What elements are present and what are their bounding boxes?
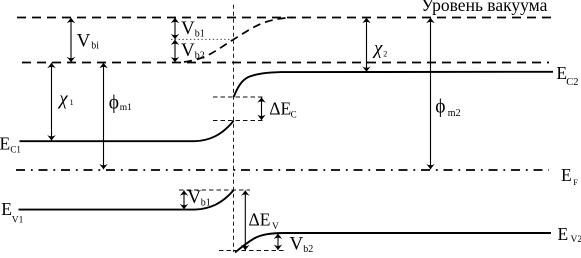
svg-text:C1: C1	[10, 145, 21, 155]
valence band E_V2	[235, 233, 551, 253]
junction vertical dashed line	[233, 5, 235, 252]
svg-text:2: 2	[383, 50, 387, 59]
svg-text:V: V	[290, 234, 304, 255]
svg-text:bi: bi	[91, 40, 99, 51]
svg-text:V: V	[181, 18, 195, 39]
svg-text:E: E	[0, 133, 10, 153]
arrow V_b1 bottom	[183, 190, 185, 209]
svg-text:χ: χ	[57, 88, 68, 109]
arrow V_b1	[174, 18, 176, 39]
arrow V_b2	[174, 40, 176, 63]
arrow V_bi	[70, 18, 72, 62]
dotted reference line at vacuum crossing	[171, 38, 234, 40]
svg-text:V: V	[187, 187, 201, 208]
arrow Delta E_C	[261, 97, 263, 120]
dashed ref E_C1 max at junction	[213, 120, 264, 122]
svg-text:V: V	[77, 31, 91, 52]
dashed ref E_C2 at junction	[213, 96, 264, 98]
svg-text:b2: b2	[195, 51, 205, 62]
Fermi level E_F dash-dot line	[16, 169, 549, 171]
svg-text:ϕ: ϕ	[435, 96, 445, 117]
svg-text:F: F	[573, 177, 578, 187]
vacuum level left dashed line	[22, 62, 549, 64]
svg-text:m2: m2	[448, 108, 461, 119]
svg-text:V2: V2	[571, 235, 581, 245]
arrow Delta E_V	[244, 190, 246, 250]
svg-text:Уровень вакуума: Уровень вакуума	[421, 0, 547, 15]
dashed ref E_V2 at junction bottom	[219, 250, 285, 252]
svg-text:b1: b1	[201, 198, 211, 209]
arrow chi_2	[366, 18, 368, 72]
vacuum level top dashed line	[17, 17, 552, 19]
svg-text:b2: b2	[303, 244, 313, 255]
svg-text:ϕ: ϕ	[109, 93, 119, 114]
svg-text:χ: χ	[372, 38, 383, 59]
svg-text:E: E	[1, 199, 12, 219]
arrow phi_m1	[103, 63, 105, 170]
svg-text:V1: V1	[12, 216, 24, 226]
valence band E_V1	[19, 190, 234, 209]
svg-text:E: E	[558, 224, 569, 244]
conduction band E_C1	[20, 121, 234, 141]
svg-text:V: V	[272, 222, 279, 232]
svg-text:ΔE: ΔE	[269, 98, 291, 118]
vacuum bending dashed curve	[184, 18, 293, 63]
svg-text:C: C	[291, 110, 297, 120]
conduction band E_C2	[234, 72, 553, 97]
arrow chi_1	[51, 63, 53, 141]
svg-text:ΔE: ΔE	[249, 210, 271, 230]
svg-text:E: E	[561, 165, 572, 185]
svg-text:C2: C2	[566, 77, 578, 88]
dashed ref E_V1 max	[179, 189, 250, 191]
svg-text:m1: m1	[120, 103, 132, 113]
svg-text:V: V	[181, 40, 195, 61]
svg-text:b1: b1	[195, 29, 205, 40]
arrow phi_m2	[430, 18, 432, 170]
svg-text:1: 1	[70, 98, 74, 107]
arrow V_b2 bottom	[277, 234, 279, 250]
